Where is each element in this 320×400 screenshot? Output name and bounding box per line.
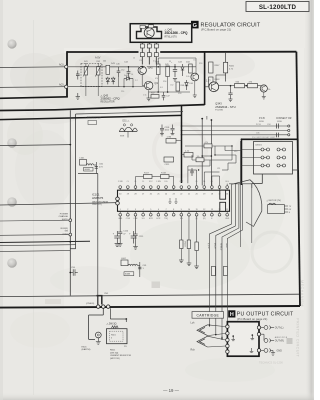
svg-text:17: 17 [218, 193, 220, 195]
resistor R47 [151, 95, 159, 99]
svg-text:PRINTED CIRCUIT: PRINTED CIRCUIT [296, 318, 300, 357]
line filter block L601 [78, 157, 104, 173]
wire AC input bus 1 [0, 66, 65, 69]
svg-text:(1)(a): (1)(a) [63, 233, 69, 235]
svg-text:R58: R58 [178, 93, 181, 95]
wire in dashed block [85, 75, 87, 96]
resistor R117 above IC [144, 175, 153, 179]
wire Q343 emitter right [219, 85, 235, 87]
svg-text:1: 1 [120, 209, 121, 211]
svg-text:Lch: Lch [191, 321, 196, 324]
resistor R41 [84, 67, 87, 76]
resistor R42 [97, 67, 100, 76]
svg-text:7: 7 [166, 209, 167, 211]
section G header REGULATOR CIRCUIT [191, 21, 261, 32]
svg-text:27: 27 [142, 193, 144, 195]
cement resistor block R601 [107, 308, 128, 348]
thick vertical V3 from regulator to IC [181, 105, 183, 183]
svg-text:14: 14 [218, 209, 220, 211]
ground under Q44 [194, 81, 196, 95]
svg-text:C.SW: C.SW [118, 181, 123, 183]
ghost blob letters [152, 282, 161, 289]
svg-text:(CN601): (CN601) [86, 303, 95, 305]
svg-text:600B: 600B [125, 274, 131, 276]
resistor R122 below IC [196, 216, 198, 242]
wire PU lead R [216, 184, 236, 333]
capacitor C45 [127, 67, 131, 78]
wire vertical from filter [97, 174, 99, 296]
PU board inner marks [232, 335, 234, 337]
svg-text:21: 21 [188, 193, 190, 195]
svg-text:1.5?: 1.5? [206, 81, 211, 83]
svg-text:29: 29 [127, 193, 129, 195]
resistor R48 [176, 82, 180, 91]
svg-text:0.5: 0.5 [153, 61, 156, 63]
svg-text:CN301: CN301 [255, 144, 263, 146]
svg-text:6: 6 [158, 209, 159, 211]
capacitor C42 electrolytic [173, 64, 177, 81]
svg-text:12: 12 [203, 209, 205, 211]
svg-text:C54: C54 [193, 60, 196, 62]
svg-text:C11: C11 [217, 168, 220, 170]
svg-text:— 19 —: — 19 — [163, 388, 179, 393]
resistor R126 [204, 144, 212, 148]
svg-text:C35: C35 [256, 133, 259, 135]
svg-text:C34: C34 [267, 124, 270, 126]
wire from A1 to regulator [68, 66, 139, 68]
resistor R342 [235, 84, 245, 88]
svg-text:CIRCUIT): CIRCUIT) [92, 204, 102, 206]
transistor Q44 [191, 73, 199, 81]
capacitor C110 below IC with ground [118, 216, 123, 246]
capacitor on wire 3 [276, 133, 278, 138]
wire drop to IC pin 12 [201, 118, 203, 186]
wire stub 2 with connector [0, 234, 69, 237]
svg-text:OUT-(R): OUT-(R) [275, 340, 284, 343]
IC101 bottom pin numbers [120, 209, 229, 211]
inner board outline top [76, 112, 183, 114]
section H header PU OUTPUT CIRCUIT [228, 310, 294, 321]
diode D44 [124, 77, 133, 80]
wire [245, 85, 248, 87]
capacitor C121 [190, 168, 194, 176]
svg-text:23: 23 [173, 193, 175, 195]
node AC2 connector [65, 85, 68, 88]
resistor R118 above IC [161, 175, 170, 179]
svg-text:SW(1): SW(1) [62, 219, 68, 221]
svg-text:SL-1200LTD: SL-1200LTD [259, 4, 297, 11]
svg-text:13: 13 [211, 209, 213, 211]
resistor R131 [223, 267, 227, 276]
cartridge label box [192, 312, 224, 319]
wire to motor connector 2 [182, 130, 288, 132]
svg-text:R59: R59 [199, 63, 202, 65]
svg-text:R52: R52 [147, 57, 150, 59]
svg-text:▲ PROTECTOR: ▲ PROTECTOR [84, 117, 102, 120]
resistor R44 [156, 64, 160, 75]
node AC1 connector [65, 65, 68, 68]
board outline: left edge [66, 51, 68, 97]
PU board right pins [257, 326, 260, 352]
svg-text:△ MOTOR (7V): △ MOTOR (7V) [267, 199, 282, 202]
wire from A2 [68, 86, 120, 88]
svg-text:MECHANISM: MECHANISM [300, 280, 304, 307]
wire vertical drops in regulator [118, 77, 120, 87]
transistor Q42 [138, 66, 153, 74]
svg-text:10: 10 [188, 209, 190, 211]
PU board left pins [226, 325, 229, 353]
varistor D51 [119, 119, 138, 137]
wire drop to IC pin 13 [210, 120, 212, 186]
inner board left edge bottom elbow [70, 248, 75, 250]
svg-text:16: 16 [226, 193, 228, 195]
wire Q343 collector up [215, 75, 217, 83]
tiny labels on motor wires [256, 124, 270, 135]
svg-text:Rch: Rch [191, 349, 196, 352]
board outline: bottom thick bus [0, 306, 300, 308]
wire base lead Q41 [141, 42, 143, 64]
svg-text:GND: GND [225, 243, 227, 248]
svg-text:A-5V: A-5V [95, 57, 101, 60]
ground near Q343 [206, 116, 208, 120]
svg-text:2SD1266 - CPQ: 2SD1266 - CPQ [165, 31, 189, 35]
svg-text:(L)CH: (L)CH [207, 243, 209, 249]
IC101 bottom pins [120, 211, 227, 213]
wire PU lead E [222, 184, 239, 340]
svg-text:R348: R348 [215, 79, 221, 81]
motor terminal block [267, 199, 292, 214]
resistor R43 [106, 65, 110, 74]
svg-text:33: 33 [169, 61, 171, 63]
IC101 top pin numbers [119, 193, 228, 195]
dashed block surge filter [81, 63, 102, 86]
svg-text:(R): (R) [203, 218, 206, 220]
tiny label scatter regulator [121, 57, 202, 97]
svg-text:P.U. MOTOR SET UNIT: P.U. MOTOR SET UNIT [252, 137, 276, 139]
svg-text:220: 220 [121, 91, 124, 93]
wire long horizontal [0, 294, 299, 296]
wire stub 5 [0, 250, 70, 253]
variable arrows on R41 R42 [83, 65, 89, 77]
IC101 motor drive [116, 190, 230, 211]
svg-text:GND: GND [277, 350, 283, 353]
svg-text:R120: R120 [184, 242, 186, 248]
capacitor cluster C101 [160, 125, 164, 137]
diode D41 [106, 77, 110, 85]
svg-text:CHANGE: CHANGE [59, 215, 69, 218]
vertical V4 thick [241, 139, 243, 185]
svg-text:1.5M: 1.5M [167, 136, 172, 138]
title box SL-1200LTD [246, 2, 309, 12]
svg-text:△ 5W 3Ω: △ 5W 3Ω [107, 323, 117, 326]
cartridge cross wires [208, 325, 228, 347]
svg-text:R341: R341 [229, 66, 235, 68]
IC101 top pins [120, 189, 227, 191]
svg-text:(P.C.Board on page 21): (P.C.Board on page 21) [237, 317, 267, 321]
connector CN301 block [242, 142, 293, 175]
junctions on motor wires [181, 125, 183, 127]
svg-text:D51 △: D51 △ [123, 119, 130, 122]
svg-text:(P.C.Board on page 21): (P.C.Board on page 21) [201, 27, 231, 31]
svg-text:CARTRIDGE: CARTRIDGE [196, 314, 219, 318]
resistor R46 [189, 64, 193, 73]
svg-text:6.8: 6.8 [160, 87, 163, 89]
svg-text:18: 18 [211, 193, 213, 195]
wire ground bus thick [0, 97, 68, 99]
regulator box bottom edge [0, 105, 205, 111]
svg-text:GND: GND [225, 218, 230, 220]
board outline: top edge of main schematic box [67, 51, 139, 53]
wire mesh between staircase and IC [185, 146, 242, 183]
wire Q42-Q43 [141, 75, 143, 86]
svg-text:CONNECT OR: CONNECT OR [276, 118, 292, 120]
svg-text:AUDIO P.C.B: AUDIO P.C.B [275, 336, 288, 339]
PU outputs [261, 326, 284, 330]
zener diode D42 [181, 64, 184, 76]
svg-text:C52: C52 [170, 85, 173, 87]
svg-text:L601: L601 [80, 157, 86, 159]
earth terminal E601 [82, 308, 104, 351]
tiny labels mesh [197, 142, 238, 170]
wire from top edge to Q343 [225, 52, 227, 82]
cartridge arrows [197, 325, 208, 347]
capacitor C47 [162, 92, 166, 100]
inner board outline left [75, 114, 77, 249]
svg-text:2.2: 2.2 [135, 80, 138, 82]
svg-text:SHIELD: SHIELD [220, 243, 222, 251]
svg-text:P.C.B: P.C.B [259, 118, 265, 120]
wire emitter down to ground [148, 90, 150, 98]
svg-text:D52: D52 [121, 70, 124, 72]
resistor R121 below IC [188, 216, 190, 240]
wire linking resistors to pins [136, 176, 144, 178]
svg-text:RUN(3): RUN(3) [61, 228, 69, 230]
wire verticals through arrow [239, 141, 241, 247]
ferrite bead row 1 on Q41 leads [140, 44, 158, 48]
IC101 bottom pin net labels [118, 218, 230, 220]
wire to motor connector 3 [182, 134, 288, 136]
svg-text:1k: 1k [133, 58, 135, 60]
svg-text:TRQ: TRQ [164, 218, 168, 220]
thick feed line to motor unit [242, 138, 299, 140]
svg-text:A(2): A(2) [59, 83, 64, 86]
svg-text:L602: L602 [121, 258, 127, 260]
svg-text:C51: C51 [139, 60, 142, 62]
diode D45 [185, 80, 188, 90]
transistor Q41 package [137, 27, 162, 39]
resistor column right of regulator box [209, 62, 213, 73]
resistor R341 [224, 62, 228, 73]
wire stub 4 [0, 244, 76, 247]
svg-text:P.U.SW: P.U.SW [215, 110, 223, 112]
transistor Q344 [258, 85, 272, 99]
transistor Q343 [206, 81, 219, 92]
svg-text:3: 3 [135, 209, 136, 211]
wire collector lead Q41 [148, 42, 150, 64]
svg-text:CL: CL [142, 181, 144, 183]
svg-text:P.C.B: P.C.B [256, 124, 261, 126]
svg-text:SIDE: SIDE [259, 121, 264, 123]
ferrite bead row 2 on Q41 leads [140, 53, 158, 57]
wire bus above PU leads [229, 183, 252, 185]
svg-text:24: 24 [165, 193, 167, 195]
capacitor cluster C102 [171, 125, 175, 135]
junction dots on cross wires [209, 324, 211, 326]
tiny text rows regulator [84, 61, 194, 97]
binder holes [7, 39, 16, 48]
IC101 top pin net labels [118, 181, 229, 183]
svg-text:10: 10 [131, 74, 133, 76]
svg-text:REGULATOR: REGULATOR [101, 101, 115, 104]
svg-text:2SB562 - CPQ: 2SB562 - CPQ [101, 97, 121, 101]
svg-text:(R)CH: (R)CH [213, 243, 215, 249]
wire mid connections [157, 75, 159, 93]
capacitor C41 [77, 71, 79, 75]
svg-text:C110: C110 [123, 231, 129, 233]
svg-text:H: H [230, 312, 234, 318]
line filter block L602 [121, 258, 147, 277]
svg-text:5.6k: 5.6k [186, 76, 190, 78]
resistor R125 [196, 158, 204, 162]
motor unit arrow shape [232, 180, 262, 227]
svg-text:CL: CL [127, 181, 129, 183]
wire bus top inside regulator [110, 66, 139, 68]
capacitor C301 electrolytic pair [114, 231, 120, 246]
resistor R120 below IC [180, 216, 182, 240]
ground symbol [76, 93, 80, 99]
wire to motor connector 1 [182, 125, 288, 127]
stub wires into connector [242, 149, 262, 151]
svg-text:RT9(L)-STU: RT9(L)-STU [165, 36, 178, 38]
PU board box [227, 322, 259, 357]
svg-text:GND: GND [118, 218, 123, 220]
tiny component labels regulator [111, 62, 191, 66]
svg-text:C111: C111 [139, 236, 145, 238]
svg-text:R601: R601 [110, 350, 116, 352]
capacitor C111 below IC with ground [133, 216, 138, 249]
svg-text:POWER: POWER [60, 213, 69, 215]
svg-text:(5W 3Ω): (5W 3Ω) [110, 352, 118, 354]
wire regulator edge to Q343 base [205, 86, 209, 88]
svg-text:R56: R56 [163, 81, 166, 83]
wire stub 3 crossing [0, 241, 90, 242]
wire emitter lead Q41 [155, 42, 157, 64]
thick mid bus [0, 115, 182, 119]
fold line (subtle) [33, 20, 35, 395]
left long wire to IC [0, 203, 118, 205]
wire AC input bus 2 [0, 86, 65, 89]
transistor Q43 [145, 81, 159, 89]
wire PU lead L [209, 184, 231, 327]
resistor R349 [248, 84, 258, 88]
resistor R130 [211, 267, 215, 276]
svg-text:600B: 600B [85, 169, 91, 171]
svg-text:10k: 10k [197, 156, 200, 158]
svg-text:R117: R117 [144, 172, 150, 174]
resistor block A [166, 139, 176, 144]
svg-text:CEMENT RESISTOR: CEMENT RESISTOR [110, 355, 131, 357]
svg-text:OUT-(L): OUT-(L) [275, 327, 284, 330]
svg-text:26: 26 [150, 193, 152, 195]
wire drops from staircase to pins [196, 170, 198, 186]
vertical V1 [69, 110, 71, 295]
component box C31 [164, 157, 174, 162]
capacitor on wire 1 [276, 124, 278, 129]
svg-text:1.5k: 1.5k [143, 95, 147, 97]
transistor Q41 block [130, 24, 192, 43]
svg-text:C101: C101 [165, 127, 171, 129]
junction dots [128, 66, 130, 68]
staircase wires right [297, 139, 299, 170]
svg-text:19: 19 [203, 193, 205, 195]
svg-text:G: G [193, 23, 197, 29]
wire mid stub [0, 145, 70, 146]
svg-text:5: 5 [150, 209, 151, 211]
svg-text:E601: E601 [82, 346, 88, 348]
svg-text:15: 15 [226, 209, 228, 211]
svg-text:A(1): A(1) [59, 63, 64, 66]
svg-text:TECHNICS SL-1200: TECHNICS SL-1200 [259, 361, 283, 365]
svg-text:25: 25 [157, 193, 159, 195]
svg-text:22: 22 [180, 193, 182, 195]
svg-text:4: 4 [143, 209, 144, 211]
svg-text:2SD2044 - STU: 2SD2044 - STU [215, 105, 235, 109]
svg-text:30: 30 [119, 193, 121, 195]
resistor block B [184, 153, 193, 158]
IC internal ground marks [168, 198, 177, 203]
vertical net labels [207, 243, 227, 251]
wire elbow to CN601 [97, 296, 102, 305]
capacitor C46 [117, 67, 121, 77]
svg-text:(EARTH): (EARTH) [82, 348, 91, 351]
wire stub 1 with connector [0, 219, 69, 222]
svg-text:8: 8 [173, 209, 174, 211]
svg-text:R347: R347 [215, 65, 221, 67]
resistor R45 [166, 66, 170, 77]
svg-text:9: 9 [181, 209, 182, 211]
regulator box right edge [204, 52, 206, 105]
svg-text:SIDE: SIDE [277, 121, 282, 123]
svg-text:47k: 47k [155, 78, 158, 80]
board outline: right edge [296, 52, 300, 306]
capacitor C55 on V1 [70, 269, 78, 275]
capacitor C341 [228, 86, 232, 102]
node CN601 pins [97, 305, 100, 308]
svg-text:11: 11 [196, 209, 198, 211]
diode D46 [111, 77, 115, 85]
svg-text:SVR: SVR [120, 136, 125, 138]
svg-text:C311: C311 [165, 164, 171, 166]
wire PU lead GND [227, 184, 242, 346]
svg-text:C.SW: C.SW [156, 181, 161, 183]
svg-text:4.7k: 4.7k [205, 142, 209, 144]
svg-text:R12: R12 [234, 151, 237, 153]
svg-text:28: 28 [134, 193, 136, 195]
svg-text:(MOTOR): (MOTOR) [110, 358, 120, 360]
wire tie between drops [202, 155, 211, 157]
svg-text:2: 2 [127, 209, 128, 211]
capacitor C302 electrolytic pair [131, 231, 137, 244]
svg-text:R118: R118 [161, 172, 167, 174]
svg-text:20: 20 [196, 193, 198, 195]
